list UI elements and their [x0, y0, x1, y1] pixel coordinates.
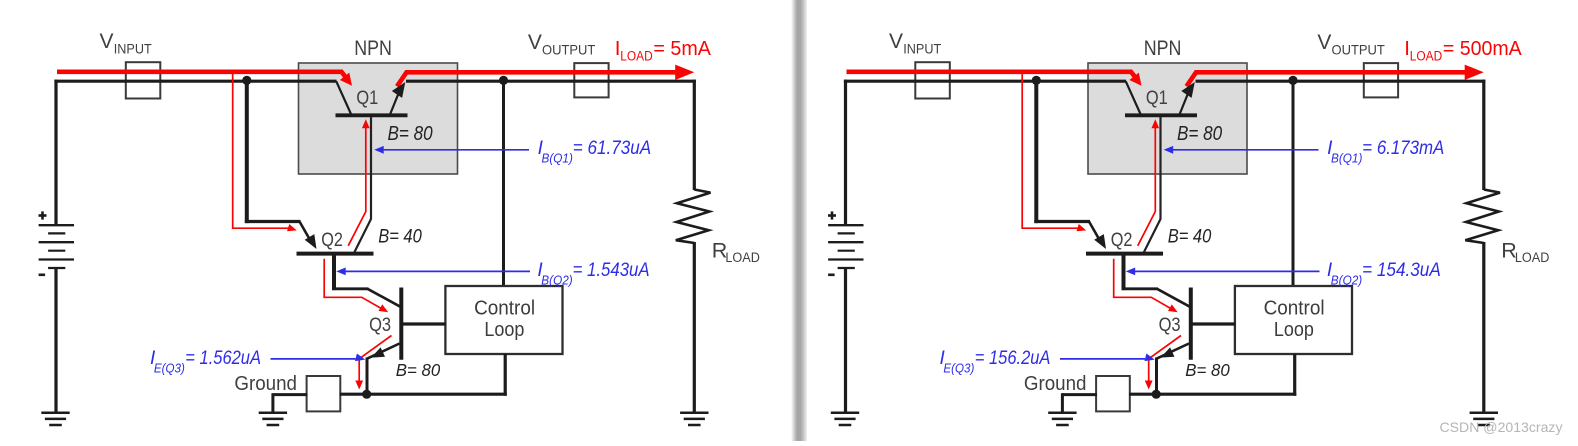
svg-text:LOAD: LOAD [725, 250, 760, 265]
battery V1 minus sign (right circuit) [828, 273, 835, 276]
wire: Control Loop down to ground rail (right circuit) [1293, 354, 1296, 396]
svg-text:E(Q3): E(Q3) [154, 361, 185, 375]
wire: R_LOAD to ground (right circuit) [1482, 242, 1485, 413]
node: ground rail junction (left circuit) [362, 390, 371, 399]
svg-text:= 61.73uA: = 61.73uA [573, 138, 651, 159]
wire: Q2 down and over to Q3 collector (left circuit) [332, 254, 336, 291]
battery V1 plates (right circuit) [828, 224, 863, 226]
svg-text:Loop: Loop [1274, 319, 1314, 341]
svg-text:B= 80: B= 80 [1185, 360, 1230, 380]
svg-text:= 1.543uA: = 1.543uA [573, 260, 650, 281]
wire: ground box to local ground (right circuit) [1062, 393, 1097, 396]
divider bar between the two schematics [791, 0, 807, 441]
wire: right vertical from output rail to R_LOAD (right circuit) [1482, 80, 1485, 190]
wire: left vertical from input rail to battery (left circuit) [54, 80, 57, 226]
wire: input rail (black, V_INPUT side) (left circuit) [54, 80, 336, 83]
transistor Q1 collector lead (left circuit) [336, 81, 351, 114]
wire: Q3 emitter down to ground rail (right circuit) [1155, 358, 1158, 396]
battery V1 minus sign (left circuit) [39, 273, 46, 276]
svg-text:B= 80: B= 80 [1177, 123, 1222, 145]
node: junction on output rail (right circuit) [1288, 76, 1297, 85]
resistor R_LOAD zigzag (left circuit) [676, 190, 711, 244]
svg-text:LOAD: LOAD [620, 49, 653, 64]
ground under ground box (left circuit) [259, 411, 287, 414]
svg-text:CSDN @2013crazy: CSDN @2013crazy [1440, 419, 1563, 435]
wire: Q1 base down to Q2 emitter (right circuit) [1144, 117, 1161, 252]
svg-text:Control: Control [1264, 298, 1325, 320]
blue arrow I_E(Q3) to Q3 emitter node (left circuit) [271, 358, 356, 360]
ground under R_LOAD (left circuit) [680, 411, 708, 414]
svg-text:INPUT: INPUT [903, 41, 941, 57]
svg-text:= 1.562uA: = 1.562uA [185, 348, 261, 369]
red current path: input side into Q1 collector (left circuit) [57, 72, 347, 79]
svg-text:Ground: Ground [1024, 373, 1087, 395]
wire: Control Loop down to ground rail (left circuit) [504, 354, 507, 396]
red current arrow Q3 emitter to ground (right circuit) [1149, 336, 1181, 382]
svg-text:Q3: Q3 [369, 314, 391, 336]
V_INPUT sense box (left circuit) [126, 62, 161, 98]
svg-text:NPN: NPN [1144, 37, 1182, 60]
svg-text:B= 40: B= 40 [1168, 226, 1212, 247]
op-amp/control block: Control Loop box (left circuit) [445, 286, 562, 354]
node: junction on input rail (right circuit) [1032, 76, 1041, 85]
transistor Q1 collector lead (right circuit) [1126, 81, 1141, 114]
op-amp/control block: Control Loop box (right circuit) [1235, 286, 1352, 354]
transistor Q1 emitter lead with arrow (left circuit) [390, 91, 400, 115]
transistor Q1 base bar (left circuit) [336, 113, 408, 117]
red current path: out of Q1 emitter to load, I_LOAD arrow (right circuit) [1187, 72, 1466, 86]
ground sense box (right circuit) [1096, 376, 1130, 411]
ground under R_LOAD (right circuit) [1470, 411, 1498, 414]
transistor Q3 base bar (vertical) (left circuit) [399, 288, 403, 360]
wire: junction down and over to Q2 collector (left circuit) [245, 80, 249, 223]
blue arrow I_B(Q2) into Q2 base (right circuit) [1129, 270, 1320, 272]
battery V1 plus sign (right circuit) [828, 214, 836, 217]
wire: left vertical from input rail to battery (right circuit) [844, 80, 847, 226]
svg-text:Ground: Ground [234, 373, 297, 395]
svg-text:Q2: Q2 [1111, 229, 1133, 251]
transistor Q3 base bar (vertical) (right circuit) [1189, 288, 1193, 360]
battery V1 plus sign (left circuit) [39, 214, 47, 217]
svg-text:Q1: Q1 [1146, 87, 1168, 109]
transistor Q1 base bar (right circuit) [1125, 113, 1197, 117]
V_OUTPUT sense box (left circuit) [574, 63, 608, 97]
red current arrow into Q1 base (from Q2) (left circuit) [362, 119, 370, 128]
wire: battery to ground (left circuit) [54, 268, 57, 413]
wire: Q2 down and over to Q3 collector (right circuit) [1122, 254, 1126, 291]
red current path: out of Q1 emitter to load, I_LOAD arrow (left circuit) [397, 72, 676, 86]
node: junction on input rail (left circuit) [242, 76, 251, 85]
wire: Q3 base to Control Loop (right circuit) [1193, 322, 1236, 325]
svg-text:B= 80: B= 80 [396, 360, 441, 380]
wire: Q3 base to Control Loop (left circuit) [403, 322, 446, 325]
wire: Q1 base down to Q2 emitter (left circuit) [355, 117, 372, 252]
svg-text:LOAD: LOAD [1515, 250, 1550, 265]
node: junction on output rail (left circuit) [499, 76, 508, 85]
red current path: input side into Q1 collector (right circuit) [847, 72, 1137, 79]
blue arrow I_B(Q1) into Q1 base (right circuit) [1167, 149, 1319, 151]
svg-text:V: V [100, 30, 114, 53]
svg-text:OUTPUT: OUTPUT [1332, 42, 1386, 58]
wire: input rail (black, V_INPUT side) (right circuit) [844, 80, 1126, 83]
ground under battery (right circuit) [831, 411, 859, 414]
wire: right vertical from output rail to R_LOAD (left circuit) [693, 80, 696, 190]
transistor Q3 emitter lead with arrow (right circuit) [1157, 344, 1189, 359]
red current arrow to Q2 collector (left circuit) [233, 74, 290, 229]
transistor Q3 emitter lead with arrow (left circuit) [367, 344, 399, 359]
right regulator schematic [828, 30, 1550, 425]
svg-text:V: V [528, 31, 542, 54]
svg-text:LOAD: LOAD [1410, 49, 1443, 64]
transistor Q1 emitter lead with arrow (right circuit) [1180, 91, 1190, 115]
svg-text:Loop: Loop [484, 319, 524, 341]
svg-text:= 154.3uA: = 154.3uA [1362, 260, 1441, 281]
blue arrow I_B(Q2) into Q2 base (left circuit) [339, 270, 530, 272]
svg-text:V: V [889, 30, 903, 53]
svg-text:= 156.2uA: = 156.2uA [975, 348, 1051, 369]
svg-text:= 6.173mA: = 6.173mA [1362, 138, 1444, 159]
wire: output rail down to Control Loop (left circuit) [502, 82, 505, 287]
wire: output rail (black, V_OUTPUT side) (right circuit) [1196, 80, 1486, 83]
wire: battery to ground (right circuit) [844, 268, 847, 413]
svg-text:NPN: NPN [354, 37, 392, 60]
transistor Q2 base bar (right circuit) [1086, 252, 1163, 256]
svg-text:Q1: Q1 [356, 87, 378, 109]
NPN pass-transistor box (grey region) (left circuit) [299, 63, 458, 174]
ground sense box (left circuit) [307, 376, 341, 411]
wire: junction down and over to Q2 collector (right circuit) [1034, 80, 1038, 223]
node: ground rail junction (right circuit) [1152, 390, 1161, 399]
red current arrow Q3 emitter to ground (left circuit) [359, 336, 391, 382]
ground under battery (left circuit) [41, 411, 69, 414]
blue arrow I_E(Q3) to Q3 emitter node (right circuit) [1060, 358, 1145, 360]
svg-text:V: V [1317, 31, 1331, 54]
V_OUTPUT sense box (right circuit) [1364, 63, 1398, 97]
svg-text:Control: Control [474, 298, 535, 320]
wire: ground rail to Control Loop return (left circuit) [340, 393, 507, 396]
svg-text:Q3: Q3 [1159, 314, 1181, 336]
resistor R_LOAD zigzag (right circuit) [1465, 190, 1500, 244]
red current arrow Q2 emitter to Q3 (left circuit) [324, 259, 383, 310]
red current arrow to Q2 collector (right circuit) [1022, 74, 1079, 229]
wire: output rail down to Control Loop (right circuit) [1292, 82, 1295, 287]
svg-text:Q2: Q2 [321, 229, 343, 251]
wire: ground box to local ground (left circuit) [273, 393, 308, 396]
red current arrow into Q1 base (from Q2) (right circuit) [1151, 119, 1159, 128]
wire: ground rail to Control Loop return (right circuit) [1129, 393, 1296, 396]
svg-text:B= 40: B= 40 [378, 226, 422, 247]
wire: Q3 emitter down to ground rail (left circuit) [366, 358, 369, 396]
transistor Q2 base bar (left circuit) [297, 252, 374, 256]
red current arrow Q2 emitter to Q3 (right circuit) [1114, 259, 1173, 310]
svg-text:OUTPUT: OUTPUT [542, 42, 596, 58]
svg-text:B(Q2): B(Q2) [541, 274, 572, 288]
svg-text:B= 80: B= 80 [388, 123, 433, 145]
wire: output rail (black, V_OUTPUT side) (left circuit) [406, 80, 696, 83]
ground under ground box (right circuit) [1048, 411, 1076, 414]
svg-text:B(Q2): B(Q2) [1331, 274, 1362, 288]
battery V1 plates (left circuit) [39, 224, 74, 226]
svg-text:B(Q1): B(Q1) [1331, 152, 1362, 166]
wire: R_LOAD to ground (left circuit) [693, 242, 696, 413]
svg-text:B(Q1): B(Q1) [542, 152, 573, 166]
NPN pass-transistor box (grey region) (right circuit) [1088, 63, 1247, 174]
svg-text:= 5mA: = 5mA [653, 37, 711, 60]
left regulator schematic [39, 30, 761, 425]
svg-text:= 500mA: = 500mA [1443, 37, 1522, 60]
svg-text:E(Q3): E(Q3) [943, 361, 974, 375]
V_INPUT sense box (right circuit) [915, 62, 950, 98]
blue arrow I_B(Q1) into Q1 base (left circuit) [377, 149, 529, 151]
svg-text:INPUT: INPUT [114, 41, 152, 57]
